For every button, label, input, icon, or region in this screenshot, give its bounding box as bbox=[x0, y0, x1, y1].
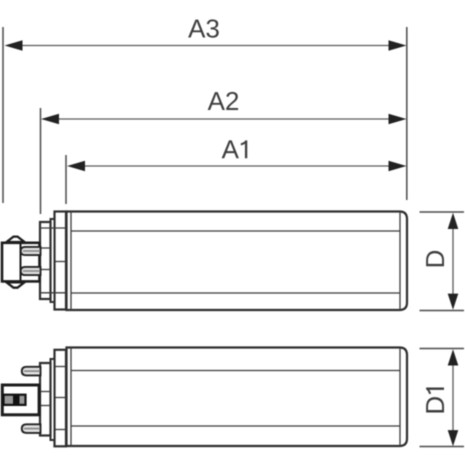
collar chamfer line upper (bottom view) bbox=[55, 366, 67, 368]
extension line at base block (A2) bbox=[40, 108, 42, 214]
end cap box (bottom view) bbox=[2, 385, 39, 415]
cap keyway slot (bottom view) bbox=[4, 395, 26, 405]
chamfer line upper across base and collar (top view) bbox=[40, 227, 66, 229]
extension line left of cap (A3) bbox=[2, 27, 4, 203]
base block line upper (bottom view) bbox=[40, 391, 51, 393]
cap keyway key (bottom view) bbox=[13, 395, 20, 404]
extension line right end (shared A1 A2 A3) bbox=[406, 27, 408, 200]
pin upper (bottom view) bbox=[22, 367, 41, 376]
tube inner vertical line left (top view) bbox=[70, 212, 72, 311]
dimension D extension line bottom bbox=[420, 310, 465, 312]
cap key ridge bottom (top view) bbox=[7, 282, 25, 287]
dimension D1 extension line bottom bbox=[420, 446, 465, 448]
tube inner vertical line right (bottom view) bbox=[399, 348, 401, 447]
pin upper (top view) bbox=[21, 247, 41, 255]
tube inner horizontal line upper (top view) bbox=[71, 230, 400, 232]
base block (top view) bbox=[40, 222, 51, 299]
dimension line A2 bbox=[41, 114, 407, 124]
cap divider line (top view) bbox=[20, 243, 22, 282]
label A2 bbox=[208, 92, 238, 110]
pin lower (top view) bbox=[21, 267, 41, 275]
collar mid line (bottom view) bbox=[55, 397, 67, 399]
collar step ring (top view) bbox=[51, 219, 55, 302]
tube inner horizontal line lower (bottom view) bbox=[71, 425, 400, 427]
label D1 bbox=[426, 388, 444, 413]
cap key ridge top (top view) bbox=[7, 237, 25, 242]
collar step ring (bottom view) bbox=[51, 359, 55, 440]
tube inner vertical line right (top view) bbox=[399, 212, 401, 311]
base collar (bottom view) bbox=[55, 350, 67, 447]
dimension line D1 bbox=[448, 349, 459, 446]
dimension line A1 bbox=[67, 161, 407, 171]
chamfer line lower across base and collar (top view) bbox=[40, 292, 66, 294]
dimension D extension line top bbox=[420, 211, 465, 213]
base collar (top view) bbox=[55, 212, 67, 310]
base block line upper (top view) bbox=[40, 247, 51, 249]
lamp tube outline (top view) bbox=[67, 212, 408, 311]
collar chamfer line lower (bottom view) bbox=[55, 429, 67, 431]
tube inner horizontal line lower (top view) bbox=[71, 292, 400, 294]
collar mid line (top view) bbox=[55, 261, 67, 263]
extension line at tube start (A1) bbox=[65, 155, 67, 204]
dimension D1 extension line top bbox=[420, 348, 465, 350]
label A3 bbox=[188, 19, 219, 37]
base block line lower (bottom view) bbox=[40, 405, 51, 407]
base block (bottom view) bbox=[40, 363, 51, 436]
lamp tube outline (bottom view) bbox=[67, 348, 408, 447]
label A1 bbox=[222, 140, 248, 158]
tube inner horizontal line upper (bottom view) bbox=[71, 370, 400, 372]
base block line lower (top view) bbox=[40, 269, 51, 271]
end cap stem box (top view) bbox=[2, 243, 40, 282]
label D bbox=[426, 251, 444, 266]
tube inner vertical line left (bottom view) bbox=[70, 348, 72, 447]
dimension line A3 bbox=[5, 40, 407, 50]
dimension line D bbox=[448, 213, 459, 310]
pin lower (bottom view) bbox=[22, 424, 41, 433]
